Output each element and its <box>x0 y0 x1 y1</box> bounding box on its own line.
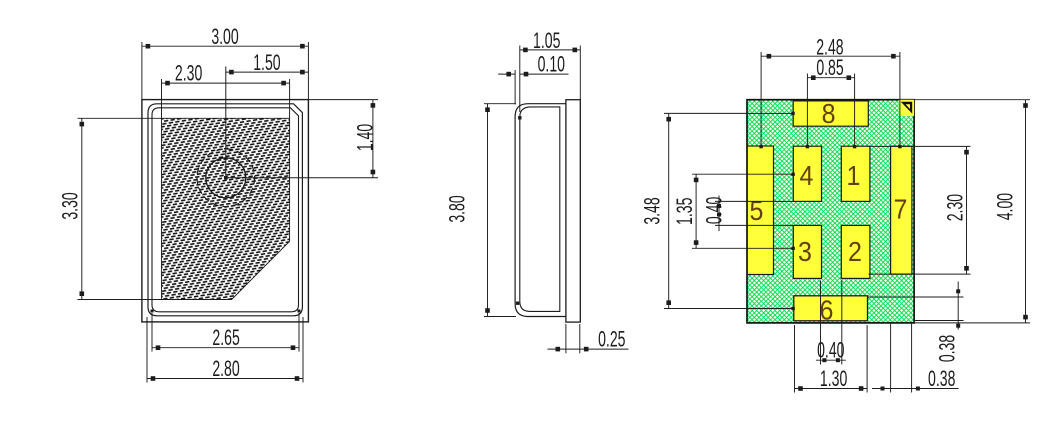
dimension 1.40 (right side of top view) <box>308 99 378 101</box>
svg-text:3.00: 3.00 <box>211 24 238 49</box>
dimension 3.30 (left side of top view) <box>78 117 162 119</box>
dimension 0.38 (pad7 width, bottom right) <box>890 323 892 393</box>
dimension 3.00 (top) <box>141 42 143 100</box>
dimension 1.30 (pad6 width) <box>794 325 796 393</box>
land pattern: green hatched substrate 3.00 x 4.00 <box>747 100 914 323</box>
svg-text:1.05: 1.05 <box>533 28 560 53</box>
side view: metal cover inner contour (0.10 wall) <box>520 107 560 312</box>
dimension 0.85 (pad4 to pad1 centers) <box>806 74 808 147</box>
svg-text:1.50: 1.50 <box>253 50 280 75</box>
dimension 2.65 <box>151 313 153 352</box>
svg-text:0.38: 0.38 <box>928 366 955 391</box>
cover corner reference dot (bottom) <box>516 302 519 305</box>
top view: horizontal centerline <box>226 177 378 179</box>
dimension 2.30 (top view) <box>161 79 163 118</box>
dimension 0.40 (gap pad3/pad2, bottom) <box>820 280 822 364</box>
svg-text:2.30: 2.30 <box>942 194 967 221</box>
cover corner reference dot (top) <box>518 116 521 119</box>
pad 1 <box>841 146 870 201</box>
top view: cover inner outline 2.65, chamfered top-right corner <box>152 108 299 312</box>
svg-text:4: 4 <box>800 160 814 191</box>
pad 7 (right edge) <box>891 146 912 274</box>
svg-text:3.30: 3.30 <box>57 192 82 219</box>
svg-text:3: 3 <box>798 236 812 267</box>
dimension 0.10 (cover wall thickness) <box>498 73 515 75</box>
pad 3 <box>793 225 821 278</box>
top view: package base outline 3.00 x 4.00 <box>142 100 309 322</box>
pad 6 (bottom) <box>794 296 868 321</box>
top view: electrode outer circle (dashed) <box>197 149 255 207</box>
top view: cover outer outline 2.80 x 3.80, chamfered top-right corner <box>148 104 302 316</box>
svg-text:2.80: 2.80 <box>212 356 239 381</box>
svg-text:3.80: 3.80 <box>444 195 469 222</box>
corner index mark (top-right triangle) <box>899 100 914 116</box>
svg-text:0.40: 0.40 <box>817 337 844 362</box>
side view: metal cover outer contour <box>515 104 566 317</box>
pad 8 (top) <box>793 101 868 126</box>
dimension 3.80 (side view height) <box>484 103 516 105</box>
top view: electrode inner circle (solid) <box>206 158 246 198</box>
pad 4 <box>793 146 821 201</box>
side view: base plate 0.25 thick <box>566 100 580 322</box>
svg-text:3.48: 3.48 <box>639 197 664 224</box>
dimension 1.05 (side view width) <box>519 46 521 113</box>
center mark dot <box>224 176 228 180</box>
dimension 0.40 (gap pad4/pad3) <box>715 200 793 202</box>
dimension 2.80 <box>146 317 148 383</box>
svg-text:2.65: 2.65 <box>212 325 239 350</box>
svg-text:0.40: 0.40 <box>701 197 726 224</box>
svg-text:2.30: 2.30 <box>175 60 202 85</box>
svg-text:1: 1 <box>847 160 861 191</box>
top view: hatched crystal area 2.30 x 3.30 with bottom-right chamfer <box>162 118 290 299</box>
svg-text:1.35: 1.35 <box>672 198 697 225</box>
svg-text:4.00: 4.00 <box>992 193 1017 220</box>
svg-text:6: 6 <box>820 294 834 325</box>
svg-text:7: 7 <box>894 193 908 224</box>
pad 5 (left edge) <box>747 146 773 275</box>
svg-text:1.40: 1.40 <box>352 124 377 151</box>
pad 2 <box>841 225 870 278</box>
dimension 2.30 (pad7 length) <box>869 145 971 147</box>
dimension 0.25 (base thickness) <box>565 324 567 353</box>
svg-text:0.85: 0.85 <box>816 55 843 80</box>
dimension 0.38 (pad6 height) <box>868 296 964 298</box>
dimension 4.00 (land pattern height) <box>914 99 1030 101</box>
dimension 1.50 <box>225 71 308 73</box>
dimension 3.48 (pad8 to pad6 centers) <box>664 112 793 114</box>
svg-text:0.25: 0.25 <box>598 326 625 351</box>
svg-text:1.30: 1.30 <box>820 366 847 391</box>
top view: vertical centerline <box>225 67 227 181</box>
dimension 1.35 (pad4 to pad3 centers) <box>692 173 793 175</box>
dimension 2.48 (pad5 to pad7 centers) <box>760 52 762 146</box>
svg-text:5: 5 <box>750 195 764 226</box>
svg-text:0.10: 0.10 <box>538 51 565 76</box>
svg-text:2: 2 <box>848 236 862 267</box>
svg-text:0.38: 0.38 <box>934 335 959 362</box>
svg-text:8: 8 <box>822 98 836 129</box>
